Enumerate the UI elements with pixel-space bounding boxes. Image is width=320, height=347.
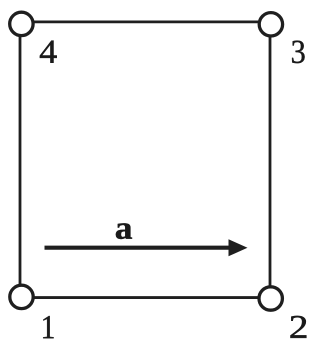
label node number 1 bbox=[43, 316, 53, 338]
node 2 circle bottom-right bbox=[259, 287, 282, 310]
label node number 2 bbox=[291, 316, 307, 338]
wire bottom edge between node 1 and node 2 bbox=[21, 296, 271, 299]
vector a arrow shaft bbox=[45, 246, 231, 250]
node 1 circle bottom-left bbox=[10, 285, 33, 308]
wire left edge between node 4 and node 1 bbox=[19, 23, 22, 297]
vector a arrow head bbox=[229, 239, 248, 256]
label node number 3 bbox=[292, 41, 304, 64]
label a bbox=[116, 223, 132, 239]
wire right edge between node 3 and node 2 bbox=[269, 23, 272, 298]
wire top edge between node 4 and node 3 bbox=[21, 20, 271, 23]
label node number 4 bbox=[40, 41, 57, 63]
node 3 circle top-right bbox=[259, 13, 282, 36]
node 4 circle top-left bbox=[10, 12, 33, 35]
